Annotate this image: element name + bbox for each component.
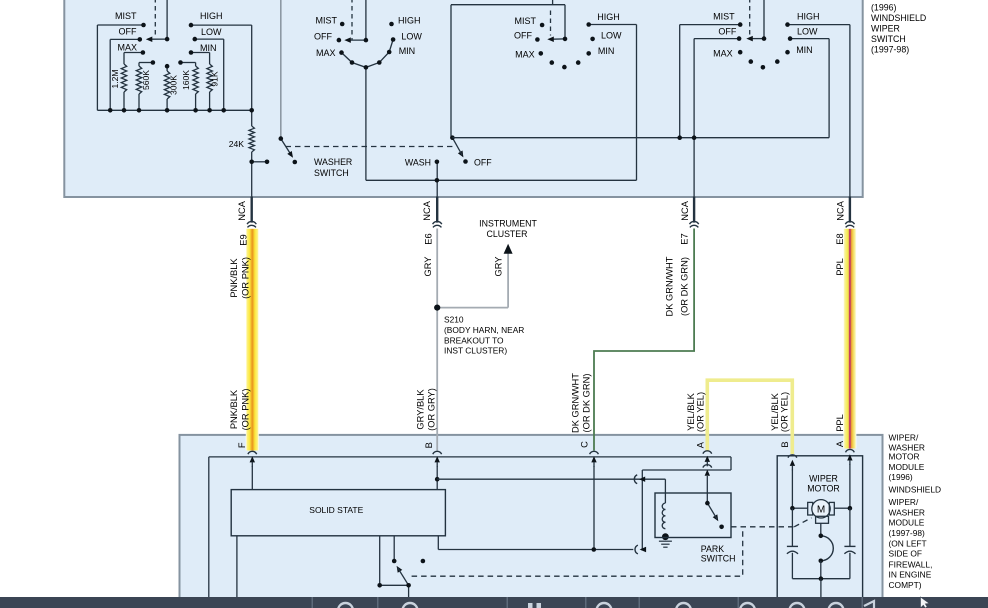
svg-text:(1997-98): (1997-98) (889, 528, 926, 538)
svg-text:OFF: OFF (119, 27, 137, 37)
svg-text:E8: E8 (835, 233, 845, 244)
svg-text:SIDE OF: SIDE OF (889, 549, 923, 559)
svg-text:WIPER: WIPER (809, 474, 838, 484)
svg-text:560K: 560K (141, 70, 151, 90)
svg-text:91K: 91K (210, 71, 220, 87)
svg-text:YEL/BLK: YEL/BLK (770, 392, 780, 431)
svg-text:WASHER: WASHER (314, 157, 352, 167)
svg-text:LOW: LOW (401, 31, 422, 41)
svg-text:LOW: LOW (797, 27, 818, 37)
svg-text:SWITCH: SWITCH (871, 34, 906, 44)
svg-text:MOTOR: MOTOR (807, 484, 840, 494)
svg-text:(1997-98): (1997-98) (871, 45, 909, 55)
svg-text:CLUSTER: CLUSTER (486, 229, 527, 239)
svg-text:NCA: NCA (422, 200, 432, 220)
svg-text:MIN: MIN (200, 43, 217, 53)
svg-text:LOW: LOW (601, 30, 622, 40)
svg-text:HIGH: HIGH (797, 12, 820, 22)
svg-text:(1996): (1996) (889, 472, 913, 482)
svg-text:E7: E7 (680, 233, 690, 244)
svg-text:PPL: PPL (835, 414, 845, 432)
svg-text:(OR DK GRN): (OR DK GRN) (680, 257, 690, 316)
svg-text:A: A (835, 440, 845, 447)
svg-text:GRY/BLK: GRY/BLK (416, 389, 426, 430)
svg-text:24K: 24K (229, 139, 245, 149)
svg-text:MOTOR: MOTOR (889, 451, 920, 461)
svg-text:C: C (580, 441, 590, 448)
svg-text:WIPER/: WIPER/ (889, 497, 919, 507)
svg-text:DK GRN/WHT: DK GRN/WHT (665, 256, 675, 316)
svg-text:SOLID STATE: SOLID STATE (309, 505, 363, 515)
svg-text:INSTRUMENT: INSTRUMENT (479, 219, 537, 229)
svg-text:HIGH: HIGH (597, 12, 620, 22)
svg-text:E9: E9 (238, 234, 248, 245)
svg-text:(OR PNK): (OR PNK) (241, 257, 251, 299)
svg-text:OFF: OFF (314, 31, 332, 41)
svg-text:B: B (424, 442, 434, 448)
svg-text:IN ENGINE: IN ENGINE (889, 569, 932, 579)
svg-text:MAX: MAX (713, 49, 733, 59)
svg-text:LOW: LOW (201, 27, 222, 37)
svg-text:WASH: WASH (405, 158, 431, 168)
svg-text:(OR GRY): (OR GRY) (427, 388, 437, 431)
svg-text:MIN: MIN (598, 46, 615, 56)
svg-text:WIPER/: WIPER/ (889, 432, 919, 442)
svg-text:F: F (237, 442, 247, 448)
svg-text:INST CLUSTER): INST CLUSTER) (444, 346, 507, 356)
svg-text:(OR YEL): (OR YEL) (696, 392, 706, 432)
svg-text:PPL: PPL (835, 258, 845, 276)
svg-text:(OR PNK): (OR PNK) (241, 389, 251, 431)
svg-text:B: B (780, 441, 790, 447)
svg-text:1.2M: 1.2M (110, 69, 120, 88)
svg-text:DK GRN/WHT: DK GRN/WHT (571, 373, 581, 433)
svg-text:A: A (695, 441, 705, 448)
svg-text:E6: E6 (424, 233, 434, 244)
svg-text:OFF: OFF (718, 27, 736, 37)
svg-text:300K: 300K (169, 75, 179, 95)
svg-text:NCA: NCA (680, 200, 690, 220)
svg-text:MAX: MAX (515, 50, 535, 60)
svg-text:MIN: MIN (796, 45, 813, 55)
svg-text:PARK: PARK (701, 544, 724, 554)
svg-text:(1996): (1996) (871, 2, 896, 12)
svg-text:GRY: GRY (494, 257, 504, 277)
svg-text:GRY: GRY (423, 257, 433, 277)
svg-text:WINDSHIELD: WINDSHIELD (871, 13, 926, 23)
svg-text:MIST: MIST (515, 16, 537, 26)
svg-text:S210: S210 (444, 315, 464, 325)
svg-text:160K: 160K (181, 70, 191, 90)
svg-text:BREAKOUT TO: BREAKOUT TO (444, 335, 504, 345)
svg-text:MODULE: MODULE (889, 462, 925, 472)
svg-text:NCA: NCA (836, 200, 846, 220)
svg-text:PNK/BLK: PNK/BLK (229, 389, 239, 429)
svg-text:OFF: OFF (514, 30, 532, 40)
svg-text:(ON LEFT: (ON LEFT (889, 538, 927, 548)
svg-text:OFF: OFF (474, 158, 492, 168)
svg-text:WINDSHIELD: WINDSHIELD (889, 485, 942, 495)
svg-text:(OR YEL): (OR YEL) (780, 392, 790, 432)
svg-text:HIGH: HIGH (398, 16, 421, 26)
svg-text:NCA: NCA (237, 200, 247, 220)
svg-text:MODULE: MODULE (889, 517, 925, 527)
svg-text:HIGH: HIGH (200, 11, 223, 21)
svg-text:MIST: MIST (316, 16, 338, 26)
svg-text:MIST: MIST (713, 12, 735, 22)
svg-text:FIREWALL,: FIREWALL, (889, 559, 933, 569)
svg-text:M: M (817, 504, 825, 515)
svg-text:(OR DK GRN): (OR DK GRN) (582, 374, 592, 433)
svg-text:MAX: MAX (117, 43, 137, 53)
svg-text:MAX: MAX (316, 48, 336, 58)
svg-text:YEL/BLK: YEL/BLK (686, 392, 696, 431)
svg-text:WASHER: WASHER (889, 507, 925, 517)
svg-text:SWITCH: SWITCH (314, 168, 349, 178)
svg-text:(BODY HARN, NEAR: (BODY HARN, NEAR (444, 325, 524, 335)
svg-text:PNK/BLK: PNK/BLK (229, 258, 239, 298)
svg-text:COMPT): COMPT) (889, 580, 922, 590)
svg-text:SWITCH: SWITCH (701, 554, 736, 564)
svg-text:MIST: MIST (115, 11, 137, 21)
svg-text:MIN: MIN (399, 46, 416, 56)
svg-text:WIPER: WIPER (871, 23, 900, 33)
